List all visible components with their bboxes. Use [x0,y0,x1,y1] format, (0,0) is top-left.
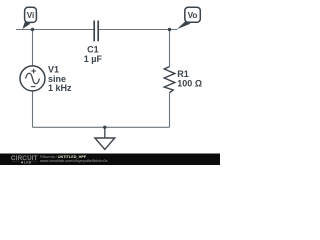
svg-text:Vi: Vi [27,11,35,20]
svg-text:R1: R1 [177,69,189,79]
svg-text:――: ―― [12,160,20,164]
svg-text:1 µF: 1 µF [84,54,103,64]
svg-text:100 Ω: 100 Ω [177,79,202,89]
svg-text:1 kHz: 1 kHz [48,83,72,93]
svg-text:www.circuitlab.com/c/bympd8e5b: www.circuitlab.com/c/bympd8e5bb4m2s [40,159,108,163]
svg-text:――: ―― [31,160,39,164]
svg-text:Vo: Vo [188,11,198,20]
svg-text:C1: C1 [87,45,99,55]
